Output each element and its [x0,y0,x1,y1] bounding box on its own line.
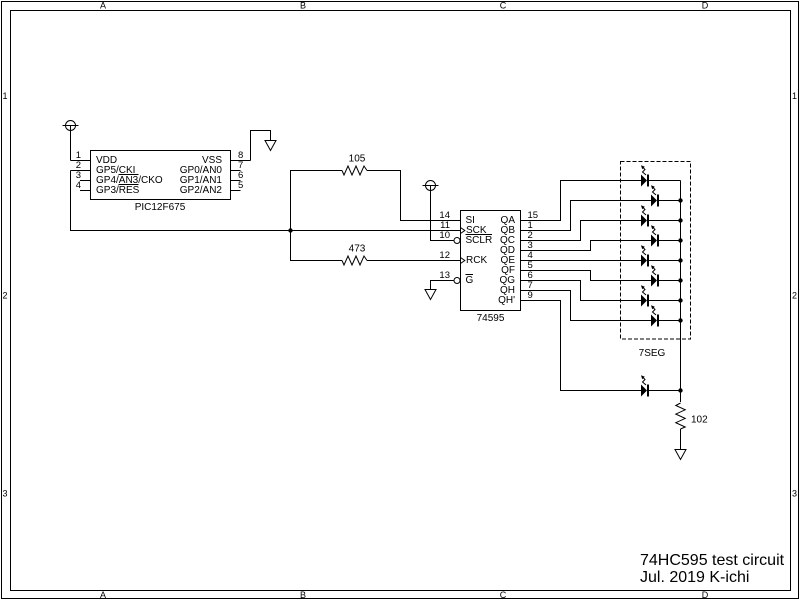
svg-text:473: 473 [349,244,366,255]
LED D8 [651,305,659,326]
wire QE pin 4 to LED5 [521,250,642,261]
svg-text:G: G [466,275,474,286]
wire LED3 to bus [649,220,681,222]
U1 pin 4 GP3 stub [76,180,91,191]
svg-text:9: 9 [528,290,533,301]
svg-text:3: 3 [792,489,797,499]
ground GND3 [675,450,686,460]
wire LED4 to bus [659,240,681,242]
svg-text:105: 105 [349,154,366,165]
junction node bus row2 [678,198,682,202]
wire U2 pin 13 G to ground [431,281,454,290]
svg-text:13: 13 [439,270,450,281]
svg-text:1: 1 [2,91,7,101]
wire LED1 to bus [649,180,681,182]
wire VCC1 to U1 pin 1 [70,126,72,161]
wire LED5 to bus [649,260,681,262]
U1 pin 8 VSS stub [231,150,251,161]
wire QA pin 15 to LED1 [521,181,642,222]
IC U1 PIC12F675 body [91,151,231,200]
7SEG dashed box [621,162,691,340]
wire LED2 to bus [659,200,681,202]
wire QG pin 6 to LED7 [521,270,642,301]
svg-text:QH': QH' [498,295,515,306]
wire QF pin 5 to LED6 [521,260,652,281]
wire LED9 to bus [649,390,681,392]
wire cathode bus [680,181,682,403]
wire VCC2 to U2 SCLR pin 10 [431,186,454,241]
svg-text:10: 10 [439,230,450,241]
junction node bus row8 [678,318,682,322]
svg-text:SCLR: SCLR [466,235,493,246]
svg-text:7SEG: 7SEG [639,348,666,359]
LED D7 [641,285,649,306]
svg-text:PIC12F675: PIC12F675 [135,202,186,213]
svg-text:4: 4 [76,180,81,191]
ground GND2 [425,290,436,300]
svg-text:3: 3 [2,489,7,499]
wire QH' pin 9 to LED9 [521,290,642,391]
wire U1 pin2 GP5 down and across to U2 SCK [71,171,461,231]
LED D6 [651,265,659,286]
svg-text:A: A [100,590,106,600]
resistor R 105 [342,166,367,175]
svg-text:GP3/RES: GP3/RES [96,185,140,196]
svg-text:2: 2 [792,291,797,301]
wire LED6 to bus [659,280,681,282]
U1 pin 2 GP5 stub [71,160,91,171]
svg-text:102: 102 [691,415,708,426]
wire QD pin 3 to LED4 [521,240,652,251]
wire U1 pin 8 VSS to ground [251,131,271,161]
svg-text:74HC595 test circuit: 74HC595 test circuit [640,552,785,569]
wire resistor 105 to U2 SI pin 14 [367,171,461,221]
wire QB pin 1 to LED2 [521,201,652,232]
junction node bus row3 [678,218,682,222]
svg-text:A: A [100,1,106,11]
junction node bus row5 [678,258,682,262]
resistor R 473 [342,256,367,265]
junction node bus row6 [678,278,682,282]
svg-text:GP2/AN2: GP2/AN2 [180,185,223,196]
LED D4 [651,225,659,246]
wire branch up to resistor 105 [291,171,343,231]
svg-text:1: 1 [792,91,797,101]
power symbol VCC1 [63,121,79,131]
resistor R 102 [676,403,685,429]
svg-text:D: D [702,590,709,600]
svg-text:C: C [500,1,507,11]
U1 pin 1 VDD stub [71,150,91,161]
wire LED7 to bus [649,300,681,302]
wire branch down to resistor 473 [291,231,343,261]
svg-text:B: B [300,590,306,600]
svg-text:C: C [500,590,507,600]
svg-text:74595: 74595 [477,313,505,324]
junction node bus row7 [678,298,682,302]
U1 pin 5 stub [231,180,244,191]
power symbol VCC2 [423,181,439,191]
LED D5 [641,245,649,266]
svg-text:12: 12 [439,250,450,261]
IC U2 74595 body [454,211,521,311]
svg-text:RCK: RCK [466,255,487,266]
svg-text:D: D [702,1,709,11]
svg-text:Jul. 2019 K-ichi: Jul. 2019 K-ichi [640,569,749,586]
U1 pin 6 stub [231,170,244,181]
junction node bus LED9 [678,388,682,392]
svg-text:B: B [300,1,306,11]
LED D1 [641,165,649,186]
junction node at SCK wire [288,228,292,232]
U1 pin 7 stub [231,160,244,171]
wire resistor 473 to U2 RCK pin 12 [367,260,461,262]
ground GND1 [265,141,276,151]
wire resistor 102 to ground [680,429,682,450]
wire QH pin 7 to LED8 [521,280,652,321]
LED D9 [641,375,649,396]
LED D3 [641,205,649,226]
wire QC pin 2 to LED3 [521,221,642,242]
svg-text:2: 2 [2,291,7,301]
svg-text:5: 5 [238,180,243,191]
junction node bus row4 [678,238,682,242]
LED D2 [651,185,659,206]
U1 pin 3 GP4 stub [76,170,91,181]
wire LED8 to bus [659,320,681,322]
